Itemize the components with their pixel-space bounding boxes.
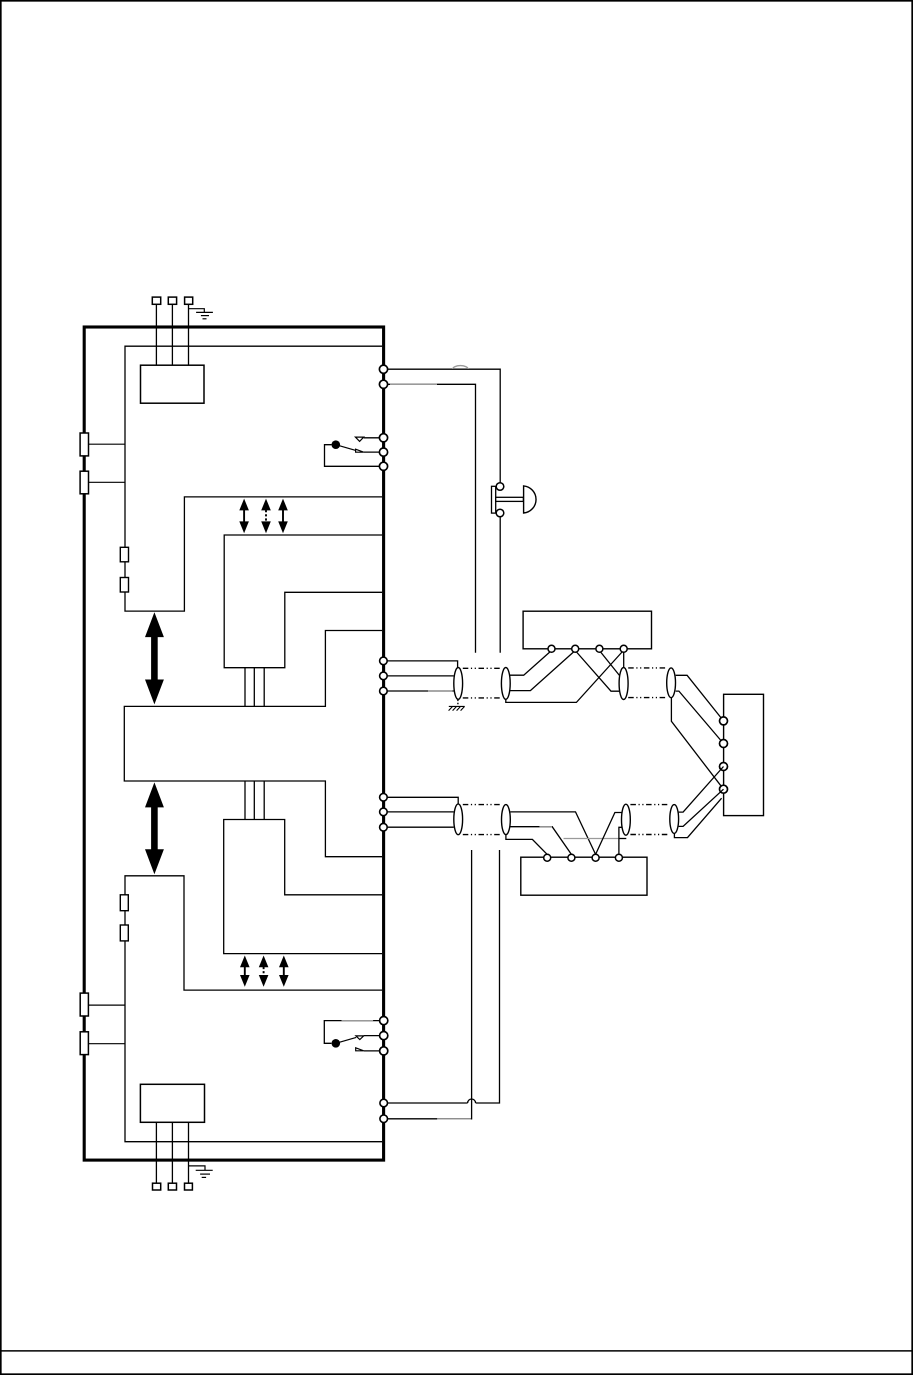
cable1 shield dash-dot top xyxy=(463,667,502,669)
gray segment conductor 3 xyxy=(428,690,453,692)
AC terminal square 3 bottom xyxy=(185,1183,193,1190)
amp pin circle 2 xyxy=(568,854,575,861)
gray segment aux lower xyxy=(437,1118,471,1120)
AC terminal square 2 top xyxy=(168,297,176,304)
wire cable1 conductor 3 xyxy=(388,690,454,692)
wire f to jack pin4 xyxy=(506,651,624,703)
bus line upper 1 xyxy=(244,668,246,707)
inline component lower b xyxy=(120,925,128,941)
speaker pin circle 3 xyxy=(720,763,728,771)
cable3 shield dash-dot bottom xyxy=(463,834,502,836)
switch upper pin circle 1 xyxy=(379,434,387,442)
switch upper bracket wire xyxy=(325,445,380,467)
buzzer plate xyxy=(492,486,496,513)
cable4 shield dash-dot top xyxy=(630,804,669,806)
antenna connector lower 2 xyxy=(80,1032,88,1055)
speaker pin circle 4 xyxy=(720,785,728,793)
wire b to jack pin2 xyxy=(510,651,575,691)
border pin circle cable3-1 xyxy=(380,794,388,802)
switch upper contact wire 2 xyxy=(364,451,380,453)
lower sub-board outline xyxy=(224,820,382,954)
border pin circle cable3-3 xyxy=(380,823,388,831)
lower board outline xyxy=(125,876,382,1142)
switch upper contact triangle 1 xyxy=(355,437,363,441)
cable2 shield dash-dot top xyxy=(628,667,666,669)
wire AC pin 1 top xyxy=(155,304,157,365)
switch lower contact triangle 1 xyxy=(356,1036,364,1040)
wire to speaker pin2 xyxy=(676,691,724,743)
border pin circle cable1-3 xyxy=(380,687,388,695)
main unit outline xyxy=(84,327,383,1160)
antenna connector upper 2 xyxy=(80,471,88,494)
wire stub to speaker box edge xyxy=(674,798,721,837)
switch lower contact triangle 2 xyxy=(356,1048,364,1051)
chassis ground symbol xyxy=(449,706,465,710)
border pin circle lower 1 xyxy=(380,1099,388,1107)
wire to amp pin1 xyxy=(506,835,547,855)
cable3 shield dash-dot top xyxy=(463,804,502,806)
switch upper common dot xyxy=(332,440,341,449)
small signal arrow lower 2 dashed xyxy=(259,956,269,987)
wire hop over vertical xyxy=(468,1099,476,1103)
wire lower conn 2 xyxy=(88,1043,125,1045)
border pin circle cable1-2 xyxy=(380,672,388,680)
switch lower bracket gray segment xyxy=(342,1020,374,1022)
wire to speaker pin4 lower xyxy=(679,789,724,826)
switch lower contact wire 2 xyxy=(364,1050,380,1052)
cable3 shield ellipse left xyxy=(454,804,463,835)
gray floating wire xyxy=(564,838,620,840)
output jack block top xyxy=(523,611,651,649)
upper board outline xyxy=(125,346,382,611)
antenna connector upper 1 xyxy=(80,433,88,456)
cable2 shield dash-dot bottom xyxy=(628,697,666,699)
cable4 shield ellipse left xyxy=(622,804,631,835)
buzzer lead lower xyxy=(499,517,501,653)
buzzer terminal circle bottom xyxy=(496,509,504,517)
antenna connector lower 1 xyxy=(80,993,88,1016)
bus line lower 2 xyxy=(253,781,255,820)
cable3 shield ellipse right xyxy=(502,805,511,835)
small signal arrow lower 3 xyxy=(279,956,289,987)
wire buzzer feed xyxy=(388,369,501,483)
small signal arrow lower 1 xyxy=(240,956,250,987)
wire AC pin 2 top xyxy=(171,304,173,365)
switch lower common dot xyxy=(332,1039,341,1048)
wire d jack pin3 to cable2 xyxy=(599,651,619,676)
wire aux vertical lower xyxy=(388,850,472,1119)
wire AC pin 1 bottom xyxy=(155,1122,157,1183)
wire amp pin4 to cable4 xyxy=(619,827,622,854)
switch lower pin circle 1 xyxy=(380,1017,388,1025)
buzzer crossbar xyxy=(496,497,524,501)
switch upper contact wire 1 xyxy=(364,437,380,439)
switch upper arm xyxy=(336,445,356,451)
switch upper pin circle 2 xyxy=(379,448,387,456)
wire AC pin 2 bottom xyxy=(171,1122,173,1183)
AC terminal square 1 top xyxy=(152,297,160,304)
small signal arrow upper 3 xyxy=(278,499,288,534)
switch lower pin circle 3 xyxy=(380,1047,388,1055)
wire aux vertical upper xyxy=(388,384,476,653)
wire to amp pin3 steep xyxy=(510,812,595,855)
wire to speaker pin1 xyxy=(676,675,724,721)
wire crossing to speaker pin4 xyxy=(671,697,723,789)
cable1 ground lead dotted xyxy=(457,700,459,706)
power supply block bottom xyxy=(140,1084,204,1122)
small signal arrow upper 1 xyxy=(239,499,249,534)
switch lower arm xyxy=(336,1037,356,1043)
bus line lower 1 xyxy=(244,781,246,820)
inline component upper b xyxy=(120,578,128,593)
cable1 shield ellipse left xyxy=(454,668,463,700)
switch lower pin circle 2 xyxy=(380,1032,388,1040)
border pin circle cable1-1 xyxy=(380,657,388,665)
wire cable3 conductor 1 xyxy=(388,797,459,804)
jack pin circle 4 xyxy=(620,645,627,652)
thick data arrow upper xyxy=(145,612,164,704)
jack pin circle 1 xyxy=(548,645,555,652)
bus line upper 2 xyxy=(253,668,255,707)
wire cable3 conductor 3 xyxy=(388,826,454,828)
cable2 shield ellipse left xyxy=(619,668,628,700)
wire cable1 conductor 1 xyxy=(388,661,458,668)
wire upper conn 2 xyxy=(89,481,126,483)
bus line upper 3 xyxy=(263,668,265,707)
AC terminal square 1 bottom xyxy=(153,1183,161,1190)
wire cable1 conductor 2 xyxy=(388,675,454,677)
switch lower contact wire 1 xyxy=(364,1035,380,1037)
small signal arrow upper 2 dashed xyxy=(261,499,271,534)
switch upper pin circle 3 xyxy=(379,462,387,470)
upper sub-board outline xyxy=(224,535,382,668)
switch upper contact triangle 2 xyxy=(356,449,364,452)
wire upper conn 1 xyxy=(89,443,126,445)
wire crossing to speaker pin3 xyxy=(679,767,724,813)
cable1 shield ellipse right xyxy=(501,668,510,700)
gray segment amp pin2 wire xyxy=(539,826,552,828)
cable4 shield ellipse right xyxy=(670,805,679,834)
footer rule xyxy=(0,1350,913,1352)
speaker pin circle 1 xyxy=(720,717,728,725)
speaker terminal block xyxy=(724,694,764,815)
bus line lower 3 xyxy=(263,781,265,820)
buzzer dome xyxy=(524,486,536,513)
amp pin circle 4 xyxy=(615,854,622,861)
amp input block bottom xyxy=(521,857,647,895)
cable1 shield dash-dot bottom xyxy=(463,697,502,699)
border pin circle cable3-2 xyxy=(380,808,388,816)
wire aux gray segment xyxy=(390,383,437,385)
earth ground top xyxy=(189,309,213,319)
power supply block top xyxy=(141,365,205,403)
amp pin circle 3 xyxy=(592,854,599,861)
wire AC pin 3 top xyxy=(188,304,190,365)
wire to amp pin2 xyxy=(510,827,571,855)
wire a to jack pin1 xyxy=(510,651,552,676)
AC terminal square 2 bottom xyxy=(168,1183,176,1190)
wire cable3 conductor 2 xyxy=(388,811,454,813)
speaker pin circle 2 xyxy=(720,740,728,748)
wire e jack pin4 to cable2 xyxy=(623,651,625,669)
wire c jack pin2 to cable2 xyxy=(575,651,619,692)
wire cable4 to amp pin3 xyxy=(596,813,622,855)
inline component upper a xyxy=(120,547,128,562)
black hook into cable4 xyxy=(620,838,627,840)
jack pin circle 2 xyxy=(572,645,579,652)
wire phones feed lower xyxy=(388,850,500,1103)
jack pin circle 3 xyxy=(596,645,603,652)
earth ground bottom xyxy=(189,1166,213,1178)
cable4 shield dash-dot bottom xyxy=(630,834,669,836)
border pin circle lower 2 xyxy=(380,1115,388,1123)
wire hop gray xyxy=(453,366,468,369)
cable2 shield ellipse right xyxy=(667,668,676,698)
wire lower conn 1 xyxy=(88,1004,125,1006)
buzzer terminal circle top xyxy=(496,483,504,491)
border pin circle wire1 top xyxy=(379,365,387,373)
wire AC pin 3 bottom xyxy=(188,1122,190,1183)
thick data arrow lower xyxy=(145,782,164,874)
amp pin circle 1 xyxy=(544,854,551,861)
inline component lower a xyxy=(120,895,128,911)
border pin circle wire2 top xyxy=(379,380,387,388)
AC terminal square 3 top xyxy=(185,297,193,304)
central mechanism block xyxy=(124,631,382,857)
switch lower bracket wire xyxy=(324,1021,380,1044)
